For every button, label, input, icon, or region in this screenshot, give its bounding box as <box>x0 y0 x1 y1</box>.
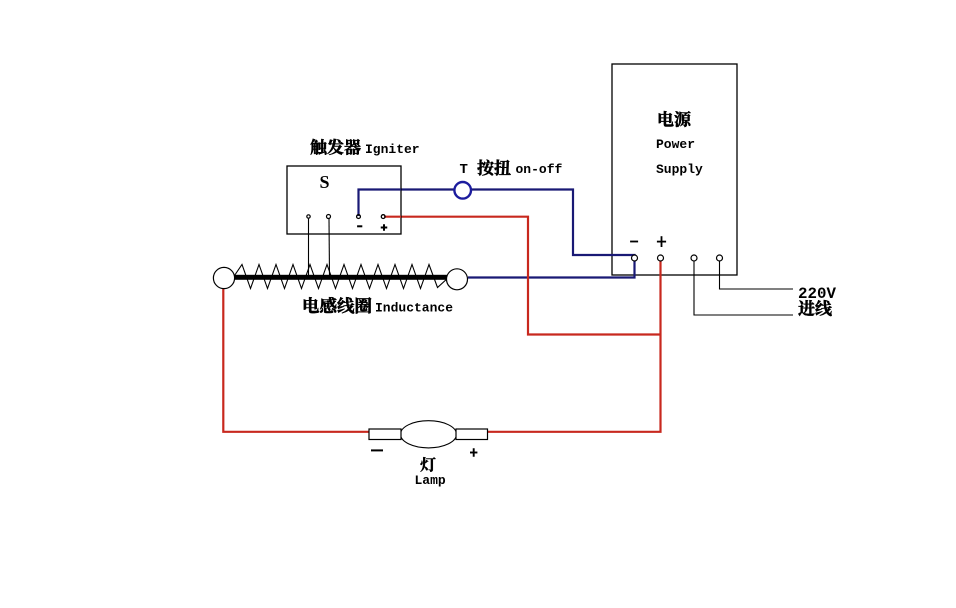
svg-text:220V: 220V <box>798 285 836 303</box>
svg-text:on-off: on-off <box>516 162 563 177</box>
lamp right electrode <box>456 429 488 440</box>
terminal supply minus <box>632 255 638 261</box>
svg-text:Supply: Supply <box>656 162 703 177</box>
svg-text:Lamp: Lamp <box>415 473 446 488</box>
terminal igniter minus <box>357 215 361 219</box>
svg-text:Inductance: Inductance <box>375 301 453 316</box>
label 电源 <box>659 111 691 127</box>
label minus (igniter) <box>357 225 362 227</box>
wire red: inductor left down to lamp(-) <box>223 286 370 432</box>
inductor L core bar <box>235 275 449 280</box>
inductor L coil zigzag <box>234 265 449 289</box>
label minus (supply) <box>630 241 638 243</box>
inductor left end circle <box>213 267 234 288</box>
lamp left electrode <box>369 429 401 440</box>
power supply box U1 <box>612 64 737 275</box>
terminal supply plus <box>658 255 664 261</box>
wire 220V line from terminal ac1 <box>694 261 793 315</box>
inductor right end circle <box>447 269 468 290</box>
terminal igniter plus <box>381 215 385 219</box>
label plus (lamp) <box>470 448 477 457</box>
svg-text:Power: Power <box>656 137 695 152</box>
label minus (lamp) <box>371 449 383 451</box>
label 按扭 <box>477 160 510 176</box>
label 触发器 <box>310 139 360 155</box>
terminal igniter pin2 <box>327 215 331 219</box>
label 灯 <box>420 457 435 472</box>
label 进线 <box>798 300 831 316</box>
svg-text:Igniter: Igniter <box>365 142 420 157</box>
label plus (igniter) <box>381 224 388 231</box>
svg-text:S: S <box>320 172 330 192</box>
wire red stub inside igniter <box>384 216 401 218</box>
pushbutton T <box>454 182 471 199</box>
wire igniter pin2 to inductor tap <box>328 219 331 276</box>
wire blue stub inside igniter <box>359 190 402 217</box>
label 电感线圈 <box>304 297 371 313</box>
terminal igniter pin1 <box>307 215 310 218</box>
terminal supply ac2 <box>717 255 723 261</box>
svg-text:T: T <box>460 162 468 178</box>
lamp EL1 bulb <box>401 421 457 448</box>
wire red: supply(+) down to lamp(+) <box>487 259 661 432</box>
wire blue net: igniter(-) to button T to supply(-) to inductor right <box>359 190 635 278</box>
wire 220V line from terminal ac2 <box>720 261 794 289</box>
label plus (supply) <box>657 236 666 247</box>
igniter box S <box>287 166 401 234</box>
wire red: igniter(+) to junction on supply(+) column <box>384 217 662 335</box>
terminal supply ac1 <box>691 255 697 261</box>
wire igniter pin1 to inductor tap <box>308 219 310 276</box>
